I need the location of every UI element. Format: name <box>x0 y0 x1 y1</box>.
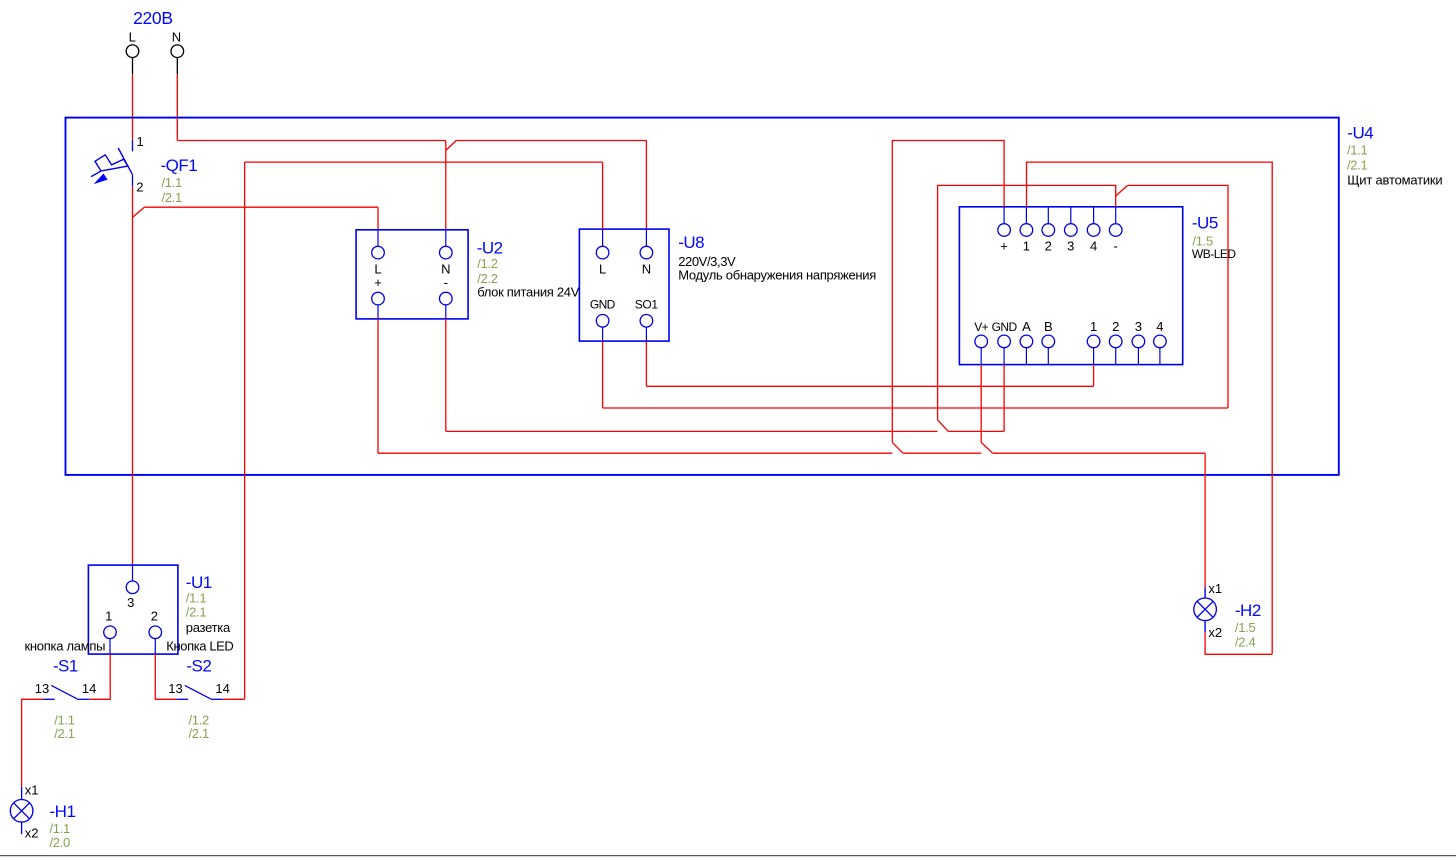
breaker QF1 pin 2 tick <box>132 175 134 187</box>
svg-text:13: 13 <box>35 681 49 696</box>
U2 pin + stub <box>377 305 379 319</box>
svg-text:-U8: -U8 <box>678 233 704 252</box>
junction chamfer V+ into plus rail <box>981 442 993 453</box>
wire lamp H2 return <box>1205 633 1272 655</box>
svg-text:1: 1 <box>1090 319 1097 334</box>
wire plus rail horizontal (middle) <box>903 452 981 454</box>
svg-text:2: 2 <box>1112 319 1119 334</box>
svg-text:/1.1: /1.1 <box>162 175 183 190</box>
svg-text:-U4: -U4 <box>1347 124 1373 143</box>
U8 pin N stub <box>645 229 647 246</box>
svg-text:1: 1 <box>1023 238 1030 253</box>
svg-text:x2: x2 <box>1208 625 1222 640</box>
wire GND bus horizontal <box>603 407 1228 409</box>
U8 pin L stub <box>602 229 604 246</box>
svg-text:разетка: разетка <box>186 620 231 635</box>
svg-text:V+: V+ <box>974 320 988 334</box>
junction chamfer +24V into plus rail <box>892 442 903 453</box>
svg-text:13: 13 <box>168 681 182 696</box>
U5 top pin 3 stub <box>1070 207 1072 224</box>
svg-text:кнопка лампы: кнопка лампы <box>25 639 106 654</box>
power supply U2 box <box>356 230 468 319</box>
U8 terminal SO1 <box>640 315 653 328</box>
switch S2 right stub <box>211 698 223 700</box>
svg-text:L: L <box>129 30 136 45</box>
wire QF1 pin2 down to U1 pin3 <box>132 186 134 565</box>
switch S2 blade <box>185 685 211 699</box>
U5 top terminal 3 <box>1065 224 1078 237</box>
switch S1 left stub <box>43 698 55 700</box>
switch S1 blade <box>51 685 77 699</box>
U5 bottom pin GND stub <box>1003 348 1005 365</box>
wire plus rail horizontal (left) <box>378 452 892 454</box>
svg-text:2: 2 <box>136 180 143 195</box>
wire U5 bottom pin1 down <box>1093 365 1095 387</box>
U5 bottom terminal V+ <box>975 335 988 348</box>
svg-text:2: 2 <box>1045 238 1052 253</box>
wire U5 bottom V+ down <box>980 365 982 443</box>
svg-text:14: 14 <box>82 681 96 696</box>
svg-text:3: 3 <box>1135 319 1142 334</box>
wire L terminal stub (black) <box>132 58 134 75</box>
svg-text:-U2: -U2 <box>477 238 503 257</box>
U1 terminal 2 <box>149 626 162 639</box>
svg-text:Модуль обнаружения напряжения: Модуль обнаружения напряжения <box>678 268 876 283</box>
U1 pin 2 stub <box>154 639 156 655</box>
U5 bottom pin V+ stub <box>980 348 982 365</box>
svg-text:-S1: -S1 <box>53 657 78 676</box>
svg-text:/1.2: /1.2 <box>477 256 498 271</box>
U2 pin L stub <box>377 230 379 247</box>
U8 terminal GND <box>596 315 609 328</box>
U8 pin GND stub <box>602 327 604 341</box>
svg-text:B: B <box>1044 319 1053 334</box>
svg-text:4: 4 <box>1090 238 1097 253</box>
junction chamfer 0V into minus rail <box>938 420 949 432</box>
U5 bottom pin B stub <box>1047 348 1049 365</box>
switch S2 left stub <box>177 698 189 700</box>
wire N terminal stub (black) <box>176 58 178 75</box>
U5 top terminal + <box>998 224 1011 237</box>
svg-text:A: A <box>1022 319 1031 334</box>
junction chamfer at QF1 output <box>133 207 145 217</box>
svg-text:+: + <box>1000 238 1008 253</box>
svg-text:/2.0: /2.0 <box>50 835 71 850</box>
breaker QF1 release flag <box>95 155 128 171</box>
U8 pin SO1 stub <box>645 327 647 341</box>
wire 0V link to U5 top minus <box>938 185 1116 420</box>
U5 bottom terminal 2 <box>1109 335 1122 348</box>
svg-text:/1.1: /1.1 <box>186 591 207 606</box>
svg-text:-H2: -H2 <box>1235 601 1261 620</box>
svg-text:220В: 220В <box>133 8 173 28</box>
svg-text:/1.5: /1.5 <box>1235 620 1256 635</box>
wire SO1 bus horizontal <box>646 385 1093 387</box>
socket U1 box <box>88 565 177 654</box>
U2 terminal L <box>372 246 385 259</box>
wire +24V link over U5 (n-shape) <box>892 141 1004 443</box>
wire U2 + down <box>377 319 379 453</box>
svg-text:/2.1: /2.1 <box>1347 158 1368 173</box>
breaker QF1 actuator tail <box>91 171 101 177</box>
breaker QF1 pin 1 tick <box>132 140 134 152</box>
U5 bottom terminal GND <box>998 335 1011 348</box>
junction chamfer branch at U5 top minus <box>1116 185 1128 196</box>
svg-text:x1: x1 <box>1208 581 1222 596</box>
U5 bottom terminal B <box>1042 335 1055 348</box>
lamp H1 bottom tick <box>21 822 23 834</box>
svg-text:/2.1: /2.1 <box>189 726 210 741</box>
lamp H2 top tick <box>1204 587 1206 598</box>
U5 bottom terminal 3 <box>1132 335 1145 348</box>
svg-text:-U5: -U5 <box>1192 214 1218 233</box>
U1 terminal 3 <box>126 581 139 594</box>
wire U2 - down <box>445 319 447 432</box>
enclosure U4 (Щит автоматики) border <box>66 118 1339 475</box>
U2 terminal - <box>440 292 453 305</box>
sheet border line <box>0 855 1456 857</box>
wire QF1 output to U2 L (horizontal) <box>144 206 378 208</box>
wire down to S2 contact 14 <box>244 162 246 699</box>
wire U1 pin1 down to S1 <box>89 654 110 699</box>
svg-text:/2.1: /2.1 <box>186 605 207 620</box>
svg-text:/1.1: /1.1 <box>50 821 71 836</box>
svg-text:SO1: SO1 <box>635 298 659 312</box>
wire down into U2 L <box>377 207 379 230</box>
wire N down <box>176 74 178 141</box>
svg-text:GND: GND <box>590 298 616 312</box>
svg-text:1: 1 <box>137 134 144 149</box>
LED controller U5 box <box>959 207 1182 365</box>
wire U5 minus branch to GND bus <box>1128 185 1228 408</box>
svg-text:+: + <box>374 275 382 290</box>
U5 top terminal 2 <box>1042 224 1055 237</box>
svg-text:/2.1: /2.1 <box>162 190 183 205</box>
U5 top pin 4 stub <box>1093 207 1095 224</box>
svg-text:/2.1: /2.1 <box>54 726 75 741</box>
svg-text:1: 1 <box>105 608 112 623</box>
wire plus rail horizontal (right) <box>993 452 1205 454</box>
switch S1 right stub <box>77 698 89 700</box>
svg-text:3: 3 <box>1067 238 1074 253</box>
svg-text:Кнопка LED: Кнопка LED <box>166 639 233 654</box>
U5 bottom pin 2 stub <box>1115 348 1117 365</box>
wire U1 pin2 down to S2 <box>155 654 176 699</box>
U8 terminal L <box>596 246 609 259</box>
lamp H2 bottom tick <box>1204 621 1206 633</box>
U2 pin - stub <box>445 305 447 319</box>
svg-text:-H1: -H1 <box>50 802 76 821</box>
U8 terminal N <box>640 246 653 259</box>
U5 bottom pin 4 stub <box>1159 348 1161 365</box>
svg-text:N: N <box>172 30 181 45</box>
svg-text:-QF1: -QF1 <box>161 156 198 175</box>
wire minus rail horizontal (right of junction) <box>948 430 1004 432</box>
breaker QF1 blade <box>118 148 132 175</box>
wire minus rail horizontal (left of junction) <box>446 430 938 432</box>
U5 top terminal 1 <box>1020 224 1033 237</box>
lamp H1 top tick <box>21 787 23 800</box>
wire S2 contact 14 to riser <box>223 698 245 700</box>
wire U8 L up <box>602 162 604 229</box>
svg-text:N: N <box>642 261 651 276</box>
wire U8 L feed horizontal <box>245 161 603 163</box>
wire N horizontal segment to U8 N <box>456 140 646 142</box>
U5 bottom terminal A <box>1020 335 1033 348</box>
U5 bottom pin 3 stub <box>1137 348 1139 365</box>
U2 terminal + <box>372 292 385 305</box>
U5 top pin 2 stub <box>1047 207 1049 224</box>
svg-text:2: 2 <box>151 608 158 623</box>
wire N horizontal segment to branch <box>177 140 446 142</box>
lamp H1 symbol <box>10 800 33 823</box>
U1 terminal 1 <box>104 626 117 639</box>
U5 top pin 1 stub <box>1025 207 1027 224</box>
wire U5 bottom GND down <box>1003 365 1005 432</box>
wire L down to QF1 pin 1 <box>132 74 134 140</box>
U5 bottom pin A stub <box>1025 348 1027 365</box>
svg-text:/1.1: /1.1 <box>1347 143 1368 158</box>
svg-text:-: - <box>1114 238 1118 253</box>
svg-text:L: L <box>599 261 606 276</box>
svg-text:-S2: -S2 <box>186 657 211 676</box>
U5 top pin + stub <box>1003 207 1005 224</box>
U5 bottom pin 1 stub <box>1093 348 1095 365</box>
svg-text:4: 4 <box>1156 319 1163 334</box>
svg-text:-U1: -U1 <box>186 573 212 592</box>
svg-text:/2.4: /2.4 <box>1235 635 1256 650</box>
svg-text:3: 3 <box>127 595 134 610</box>
svg-text:GND: GND <box>992 320 1018 334</box>
svg-text:x1: x1 <box>25 782 39 797</box>
wire S1 to lamp H1 <box>22 699 43 787</box>
U5 bottom terminal 1 <box>1087 335 1100 348</box>
wire branch down to U2 N <box>445 141 447 230</box>
wire U8 GND down <box>602 341 604 408</box>
wire plus rail down to lamp H2 <box>1204 453 1206 587</box>
breaker QF1 arrow head <box>95 174 107 183</box>
svg-text:-: - <box>444 275 448 290</box>
U5 top terminal 4 <box>1087 224 1100 237</box>
wire U8 SO1 down <box>645 341 647 386</box>
svg-text:14: 14 <box>215 681 229 696</box>
U2 pin N stub <box>445 230 447 247</box>
U5 top terminal - <box>1109 224 1122 237</box>
svg-text:Щит автоматики: Щит автоматики <box>1347 173 1442 188</box>
U5 bottom terminal 4 <box>1154 335 1167 348</box>
U5 top pin - stub <box>1115 207 1117 224</box>
voltage detection module U8 box <box>579 229 669 341</box>
svg-text:блок питания 24V: блок питания 24V <box>477 285 580 300</box>
U1 pin 3 stub <box>132 565 134 581</box>
U2 terminal N <box>440 246 453 259</box>
U1 pin 1 stub <box>109 639 111 655</box>
junction chamfer N branch to U2 N <box>446 141 457 151</box>
lamp H2 symbol <box>1194 598 1217 621</box>
wire down into U8 N <box>645 141 647 230</box>
svg-text:x2: x2 <box>25 826 39 841</box>
wire U5 top pin1 to lamp H2 return <box>1027 162 1273 654</box>
svg-text:WB-LED: WB-LED <box>1192 247 1237 261</box>
